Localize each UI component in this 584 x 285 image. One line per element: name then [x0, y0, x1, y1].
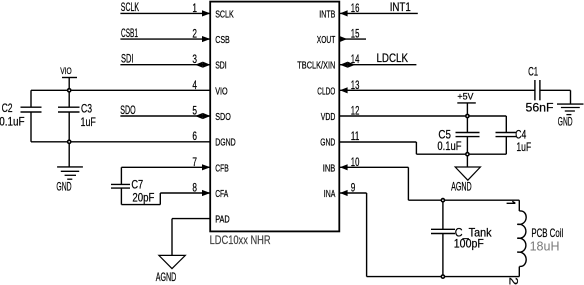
- svg-text:VIO: VIO: [60, 66, 71, 77]
- svg-text:LDC10xx NHR: LDC10xx NHR: [210, 234, 271, 247]
- svg-text:INA: INA: [324, 189, 336, 200]
- wire pin11 GND: [339, 141, 416, 143]
- wire tank bottom rail: [367, 276, 520, 278]
- capacitor C3: [68, 90, 70, 107]
- svg-text:INT1: INT1: [390, 0, 411, 14]
- wire pin12 VDD: [339, 115, 506, 117]
- svg-text:SCLK: SCLK: [215, 9, 234, 20]
- wire pin13 CLDO: [339, 89, 535, 91]
- svg-text:SDO: SDO: [215, 112, 231, 123]
- junction tank bottom node: [441, 274, 446, 279]
- ground GND right symbol: [557, 103, 584, 105]
- svg-text:LDCLK: LDCLK: [377, 51, 409, 65]
- wire pin2 CSB: [120, 38, 210, 40]
- svg-text:PAD: PAD: [215, 215, 230, 226]
- svg-text:15: 15: [351, 27, 360, 41]
- capacitor C4: [505, 116, 507, 132]
- svg-text:C2: C2: [2, 101, 13, 115]
- arrow pin3 double: [203, 62, 211, 68]
- ground GND left symbol: [68, 142, 70, 167]
- svg-text:20pF: 20pF: [132, 191, 154, 205]
- svg-text:0.1uF: 0.1uF: [437, 139, 461, 153]
- capacitor C1: [534, 80, 536, 100]
- svg-text:GND: GND: [320, 138, 335, 149]
- wire pin8 CFA: [160, 192, 210, 194]
- svg-text:8: 8: [192, 181, 197, 195]
- svg-text:SDI: SDI: [121, 52, 134, 66]
- wire pin6 DGND rail: [31, 141, 210, 143]
- wire pin9 INA: [339, 192, 366, 194]
- inductor L1 PCB coil: [518, 200, 520, 211]
- capacitor C7: [111, 183, 130, 185]
- arrow pin2: [202, 36, 210, 42]
- junction VIO/C3 top: [67, 88, 72, 93]
- arrow pin7: [202, 164, 210, 170]
- svg-text:6: 6: [192, 129, 197, 143]
- svg-text:18uH: 18uH: [530, 240, 560, 254]
- svg-text:VIO: VIO: [215, 86, 228, 97]
- junction tank top node: [441, 198, 446, 203]
- svg-text:SDI: SDI: [215, 61, 227, 72]
- svg-text:1uF: 1uF: [516, 140, 531, 154]
- arrows: [195, 10, 355, 196]
- wire PAD: [172, 218, 210, 220]
- svg-text:AGND: AGND: [156, 270, 177, 284]
- arrow pin9: [340, 190, 348, 196]
- svg-text:INTB: INTB: [319, 9, 335, 20]
- wire pin3 SDI: [120, 64, 210, 66]
- svg-text:+5V: +5V: [457, 92, 474, 103]
- power VIO bar: [62, 77, 77, 79]
- svg-text:DGND: DGND: [215, 138, 236, 149]
- svg-text:VDD: VDD: [321, 112, 336, 123]
- svg-text:0.1uF: 0.1uF: [0, 114, 25, 128]
- junction C5 bottom rail: [465, 152, 470, 157]
- svg-text:4: 4: [192, 78, 197, 92]
- svg-text:C3: C3: [81, 101, 92, 115]
- svg-text:C7: C7: [131, 178, 143, 192]
- svg-text:AGND: AGND: [451, 179, 472, 193]
- svg-text:11: 11: [351, 129, 360, 143]
- capacitor C2: [30, 90, 32, 107]
- wire analog ground rail: [416, 153, 506, 155]
- power +5V bar: [457, 102, 476, 104]
- arrow pin14 double: [340, 62, 348, 68]
- svg-text:SDO: SDO: [120, 103, 135, 117]
- wire pin14 TBCLK: [339, 64, 416, 66]
- wire pin7 CFB: [121, 166, 210, 168]
- arrow pin1: [202, 10, 210, 16]
- svg-text:CFA: CFA: [215, 189, 228, 200]
- svg-text:12: 12: [351, 104, 360, 118]
- svg-text:9: 9: [351, 181, 356, 195]
- svg-text:CSB1: CSB1: [121, 26, 138, 40]
- wire pin15 XOUT: [339, 38, 366, 40]
- svg-text:SCLK: SCLK: [121, 0, 139, 14]
- svg-text:1uF: 1uF: [81, 115, 96, 129]
- junction C3/DGND bottom: [67, 139, 72, 144]
- svg-text:INB: INB: [323, 163, 336, 174]
- arrow pin13: [340, 87, 348, 93]
- arrow pin15 out: [340, 36, 348, 42]
- svg-text:14: 14: [351, 52, 360, 66]
- wire pin16 INTB: [339, 12, 418, 14]
- svg-text:3: 3: [192, 52, 197, 66]
- svg-text:2: 2: [192, 27, 197, 41]
- arrow pin5 double: [203, 113, 211, 119]
- svg-text:CLDO: CLDO: [317, 86, 335, 97]
- svg-text:100pF: 100pF: [454, 236, 484, 250]
- svg-text:C1: C1: [528, 65, 538, 79]
- svg-text:XOUT: XOUT: [317, 35, 336, 46]
- svg-text:5: 5: [192, 104, 197, 118]
- svg-text:10: 10: [351, 155, 360, 169]
- svg-text:13: 13: [351, 78, 360, 92]
- wire pin4 VIO rail: [31, 89, 210, 91]
- ground AGND right triangle: [466, 154, 468, 167]
- junction +5V/VDD: [465, 114, 470, 119]
- svg-text:16: 16: [351, 1, 360, 15]
- svg-text:1: 1: [192, 1, 197, 15]
- svg-text:CSB: CSB: [215, 35, 230, 46]
- wire pin10 INB: [339, 166, 408, 168]
- IC U1 LDC10xx chip body: [210, 2, 339, 232]
- arrow pin16: [340, 10, 348, 16]
- arrow pin8: [202, 190, 210, 196]
- wire tank top rail: [408, 199, 519, 201]
- arrow pin10: [340, 164, 348, 170]
- ground AGND left triangle: [159, 255, 185, 268]
- svg-text:7: 7: [192, 155, 197, 169]
- wire pin5 SDO: [120, 115, 210, 117]
- capacitor C5: [466, 116, 468, 132]
- capacitor C_Tank: [442, 200, 444, 229]
- svg-text:2: 2: [507, 277, 521, 285]
- svg-text:TBCLK/XIN: TBCLK/XIN: [297, 61, 335, 72]
- svg-text:PCB Coil: PCB Coil: [531, 226, 563, 240]
- wire pin1 SCLK: [120, 12, 210, 14]
- svg-text:CFB: CFB: [215, 163, 229, 174]
- svg-text:56nF: 56nF: [526, 101, 554, 115]
- label coil pin 1: [507, 201, 516, 203]
- svg-text:GND: GND: [558, 114, 573, 128]
- svg-text:GND: GND: [56, 179, 71, 193]
